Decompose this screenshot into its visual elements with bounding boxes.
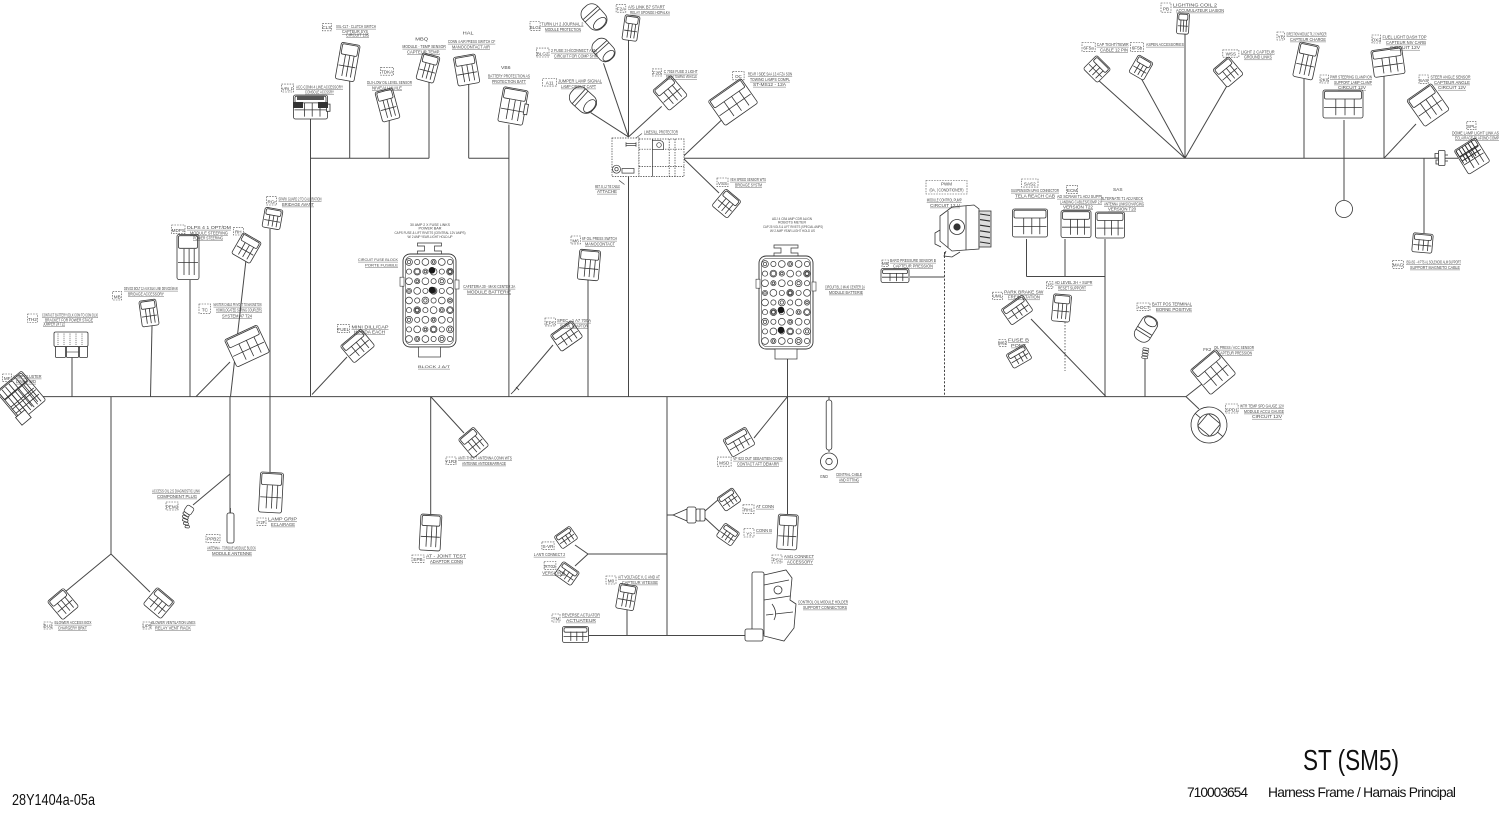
svg-text:CONN 4 AIR PRESS SWITCH CF: CONN 4 AIR PRESS SWITCH CF (448, 39, 496, 44)
svg-text:SUPPL ADAPTOR: SUPPL ADAPTOR (560, 323, 588, 328)
svg-text:CIRCUIT 105: CIRCUIT 105 (346, 33, 369, 38)
svg-text:ASPEN ACCESSORIES: ASPEN ACCESSORIES (1146, 42, 1184, 47)
svg-text:TELA REACH CAB: TELA REACH CAB (1015, 193, 1055, 198)
svg-text:JUMPER LAMP SIGNAL: JUMPER LAMP SIGNAL (558, 79, 602, 84)
svg-text:TH2: TH2 (28, 317, 37, 322)
svg-text:PEM2: PEM2 (166, 504, 179, 509)
svg-text:REVERSE ACTUATOR: REVERSE ACTUATOR (562, 613, 601, 618)
svg-text:MODULE BATTERIE: MODULE BATTERIE (467, 289, 511, 294)
svg-text:EPB: EPB (413, 557, 422, 562)
svg-text:MAG: MAG (1393, 263, 1404, 268)
svg-text:FK2: FK2 (1203, 347, 1211, 352)
svg-text:JUMPER 24 T22: JUMPER 24 T22 (43, 322, 65, 327)
svg-text:CIRCUIT 12V: CIRCUIT 12V (1252, 414, 1282, 419)
svg-text:PORTE FUSIBLE: PORTE FUSIBLE (365, 262, 398, 267)
svg-text:ACCESS OIL 2.5 DIAGNOSTIC LINK: ACCESS OIL 2.5 DIAGNOSTIC LINK (152, 489, 200, 494)
svg-text:CAPTEUR TEMP.: CAPTEUR TEMP. (407, 49, 440, 54)
svg-text:L ANTI CONNECT 2: L ANTI CONNECT 2 (534, 552, 566, 557)
svg-text:HONDA EACH: HONDA EACH (354, 330, 385, 335)
svg-text:RH: RH (235, 229, 242, 234)
svg-text:M6: M6 (572, 238, 579, 243)
svg-text:MODULE PROTECTION: MODULE PROTECTION (545, 27, 581, 32)
svg-text:WSS: WSS (1226, 52, 1236, 57)
svg-text:710003654: 710003654 (1187, 785, 1248, 800)
svg-text:ECM: ECM (1067, 188, 1077, 193)
svg-text:ISSASS - 4 PTS AL SOLENOID ALM: ISSASS - 4 PTS AL SOLENOID ALM SUPPORT (1406, 260, 1461, 265)
svg-text:CAPTEUR VITESSE: CAPTEUR VITESSE (622, 580, 658, 585)
svg-text:PONT: PONT (1011, 343, 1026, 348)
svg-text:RH1: RH1 (744, 508, 754, 513)
svg-text:PPB2: PPB2 (207, 537, 219, 542)
svg-text:TC: TC (202, 308, 209, 313)
svg-text:CAPTEUR ANGLE: CAPTEUR ANGLE (1434, 80, 1470, 85)
svg-text:A/T VOLTAGE V, C AND AT: A/T VOLTAGE V, C AND AT (618, 575, 660, 580)
svg-text:POWER STEERING: POWER STEERING (193, 236, 223, 241)
svg-text:SUPPORT CONNECTORS: SUPPORT CONNECTORS (803, 605, 847, 610)
svg-text:SAS2: SAS2 (1024, 182, 1036, 187)
svg-text:FUSE B: FUSE B (1008, 338, 1029, 343)
svg-text:OIL PRESS / ACC SENSOR: OIL PRESS / ACC SENSOR (1214, 345, 1254, 350)
svg-text:BARO PRESSURE SENSOR B: BARO PRESSURE SENSOR B (890, 258, 936, 263)
svg-text:A11: A11 (546, 81, 554, 86)
svg-text:BRIDAGE SYSTM: BRIDAGE SYSTM (735, 182, 762, 187)
svg-text:FREIN STATION: FREIN STATION (1008, 295, 1040, 300)
svg-text:RELAY SPONGE HOPALKA: RELAY SPONGE HOPALKA (630, 10, 671, 15)
svg-text:DLPS 4 1 OPT/DM: DLPS 4 1 OPT/DM (187, 225, 231, 230)
svg-text:MODULE ANTENNE: MODULE ANTENNE (212, 551, 252, 556)
svg-text:MDPS: MDPS (172, 228, 185, 233)
svg-text:A/S LINK B7 START: A/S LINK B7 START (628, 5, 665, 10)
svg-text:RELAY VENT RACK: RELAY VENT RACK (155, 625, 192, 630)
svg-text:VEH SPEED SENSOR WTS: VEH SPEED SENSOR WTS (730, 177, 766, 182)
svg-text:M62: M62 (998, 341, 1007, 346)
svg-text:CIRCUIT 12V: CIRCUIT 12V (1338, 85, 1366, 90)
svg-text:MODULE STEERING: MODULE STEERING (190, 230, 228, 235)
svg-text:CAPTEUR CHARGE: CAPTEUR CHARGE (1290, 37, 1326, 42)
svg-text:MANOCONTACT AIR: MANOCONTACT AIR (452, 44, 490, 49)
svg-text:CIRCUIT 12 V: CIRCUIT 12 V (930, 203, 960, 208)
svg-text:CAP TIGHT/TIEWR: CAP TIGHT/TIEWR (1097, 42, 1130, 47)
svg-text:SUPPORT LAMP CLAMP: SUPPORT LAMP CLAMP (1334, 80, 1372, 85)
svg-text:Amt1 CONNECT: Amt1 CONNECT (784, 554, 814, 559)
svg-text:Y2F: Y2F (258, 520, 266, 525)
svg-text:BORNE POSITIVE: BORNE POSITIVE (1156, 307, 1192, 312)
svg-text:2 FUSE 3 H/CONNECT ASM: 2 FUSE 3 H/CONNECT ASM (551, 48, 597, 53)
svg-text:OX2: OX2 (1372, 37, 1382, 42)
svg-text:JS: JS (1047, 283, 1052, 288)
svg-text:Harness Frame / Harnais Princi: Harness Frame / Harnais Principal (1268, 785, 1456, 800)
svg-text:M0: M0 (608, 578, 615, 583)
svg-text:W/ 2 AMP YEAR-LIGHT HOLD US: W/ 2 AMP YEAR-LIGHT HOLD US (770, 229, 815, 233)
svg-text:MINI DILL/CAP: MINI DILL/CAP (352, 324, 389, 329)
svg-text:CLS: CLS (322, 25, 331, 30)
svg-text:PWR STEERING CLAMP ION: PWR STEERING CLAMP ION (1330, 75, 1372, 80)
svg-text:BATT POS TERMINAL: BATT POS TERMINAL (1152, 302, 1192, 307)
svg-text:CAPTEUR PRESSION: CAPTEUR PRESSION (1218, 350, 1252, 355)
svg-text:AND FITTING: AND FITTING (839, 477, 859, 482)
svg-text:LINES/ILL PROTECTOR: LINES/ILL PROTECTOR (644, 130, 678, 135)
svg-text:F2A: F2A (617, 7, 626, 12)
svg-text:MODULE CONTROL PUMP: MODULE CONTROL PUMP (927, 198, 962, 203)
svg-text:Y2: Y2 (746, 531, 752, 536)
svg-text:BLG2: BLG2 (537, 51, 549, 56)
svg-text:BATTERY PROTECTION AS: BATTERY PROTECTION AS (488, 74, 530, 79)
svg-text:TM: TM (553, 616, 560, 621)
svg-text:CIRCUIT BL 2 MAXI CENTER 2A: CIRCUIT BL 2 MAXI CENTER 2A (825, 285, 865, 290)
svg-text:DEVICE BOLT 12 AUX BLK LINK DE: DEVICE BOLT 12 AUX BLK LINK DEVICE/MAXI (124, 286, 178, 291)
svg-text:SPARK GUARD 2 TO CALIBRATION: SPARK GUARD 2 TO CALIBRATION (279, 197, 322, 202)
svg-text:AT CONN: AT CONN (756, 504, 774, 509)
svg-text:TURN LH 2 JOURNAL 2: TURN LH 2 JOURNAL 2 (541, 22, 583, 27)
svg-text:BLOWER VENTILATION LINES: BLOWER VENTILATION LINES (152, 620, 196, 625)
svg-text:UML: UML (993, 294, 1003, 299)
svg-text:CHARGERY BRKT: CHARGERY BRKT (58, 625, 87, 630)
svg-text:RT02: RT02 (544, 564, 556, 569)
svg-text:SAS: SAS (1419, 78, 1428, 83)
svg-text:BLGr: BLGr (530, 25, 541, 30)
svg-text:GND: GND (820, 474, 828, 479)
svg-text:VERSION T22: VERSION T22 (1063, 205, 1094, 210)
svg-text:MSD: MSD (719, 461, 730, 466)
svg-text:CONTACT AFT DEMARR: CONTACT AFT DEMARR (737, 462, 780, 467)
svg-text:RGr: RGr (267, 199, 276, 204)
svg-text:MBQ: MBQ (415, 37, 428, 42)
svg-text:GROUND LINKS: GROUND LINKS (1244, 55, 1272, 60)
svg-text:LAMP GRIP: LAMP GRIP (268, 517, 297, 522)
svg-text:NIVEAU HUILE: NIVEAU HUILE (372, 86, 402, 91)
svg-text:MB: MB (114, 294, 121, 299)
svg-text:CAFETERIA 30 - MAXI CENTER 2A: CAFETERIA 30 - MAXI CENTER 2A (463, 284, 515, 289)
svg-text:ATTACHE: ATTACHE (597, 189, 617, 194)
svg-text:MODULE - TEMP SENSOR: MODULE - TEMP SENSOR (402, 44, 446, 49)
svg-text:6F OIL PRESS SWITCH: 6F OIL PRESS SWITCH (582, 236, 617, 241)
svg-text:STEER ANGLE SENSOR: STEER ANGLE SENSOR (1431, 75, 1472, 80)
svg-text:CIRCUIT 12V: CIRCUIT 12V (1438, 85, 1466, 90)
svg-text:LINK FWD: LINK FWD (16, 379, 37, 384)
svg-text:CIRCUIT 12V: CIRCUIT 12V (1390, 45, 1420, 50)
svg-text:CONTROL OIL MODULE HOLDER: CONTROL OIL MODULE HOLDER (798, 600, 848, 605)
svg-text:VB6: VB6 (501, 65, 511, 70)
svg-text:BLOCK J A/T: BLOCK J A/T (418, 365, 451, 369)
svg-text:2K0: 2K0 (1320, 77, 1329, 82)
svg-text:VSS: VSS (718, 181, 727, 186)
svg-text:ACTUATEUR: ACTUATEUR (566, 618, 597, 623)
svg-text:ECLAIRAGE PLAFOND COMP: ECLAIRAGE PLAFOND COMP (1455, 136, 1499, 141)
svg-text:REAR / SIDE SAA 13.4 FZA SON: REAR / SIDE SAA 13.4 FZA SON (748, 72, 792, 77)
svg-text:SPL: SPL (1467, 124, 1476, 129)
svg-text:ADAPTOR CONN: ADAPTOR CONN (430, 559, 463, 564)
svg-text:RESET SUPPORT: RESET SUPPORT (1058, 285, 1086, 290)
svg-text:MANOCONTACT: MANOCONTACT (585, 241, 615, 246)
svg-text:CABLE 12 PIN: CABLE 12 PIN (1100, 47, 1128, 52)
svg-text:MODULE ACCU GAUGE: MODULE ACCU GAUGE (1244, 409, 1284, 414)
svg-text:SUSPENSION UPAS CONNECTOR: SUSPENSION UPAS CONNECTOR (1011, 188, 1059, 193)
svg-text:CAPTEUR NIV CARB: CAPTEUR NIV CARB (1386, 40, 1426, 45)
svg-text:CONN B: CONN B (756, 528, 772, 533)
svg-text:FROM TOWING VEHICLE: FROM TOWING VEHICLE (666, 74, 697, 79)
svg-text:VRLF: VRLF (282, 86, 294, 91)
svg-text:M6: M6 (882, 261, 889, 266)
svg-text:Y1R2: Y1R2 (445, 459, 457, 464)
svg-text:CIRCUIT FUSE BLOCK: CIRCUIT FUSE BLOCK (358, 257, 398, 262)
svg-text:BU2: BU2 (44, 623, 53, 628)
svg-text:TDKA: TDKA (381, 70, 394, 75)
svg-text:BRIDAGE AVANT: BRIDAGE AVANT (282, 202, 314, 207)
svg-text:SPEC - 1 A7 700A: SPEC - 1 A7 700A (557, 318, 592, 323)
svg-text:CONSOLE ACCSSRY: CONSOLE ACCSSRY (305, 90, 334, 95)
svg-text:SAS: SAS (1113, 187, 1123, 192)
svg-text:OC: OC (735, 74, 743, 79)
svg-text:HAL: HAL (463, 31, 474, 36)
svg-text:UP5: UP5 (143, 623, 152, 628)
svg-text:VERSION T20: VERSION T20 (1108, 207, 1137, 212)
svg-text:PB: PB (1163, 7, 1169, 12)
svg-text:W/ 2 AMP YEAR-LIGHT HOLD-UP: W/ 2 AMP YEAR-LIGHT HOLD-UP (408, 235, 453, 239)
svg-text:ANTENNE ANTIDEMARRAGE: ANTENNE ANTIDEMARRAGE (462, 461, 506, 466)
svg-text:PS1: PS1 (773, 557, 782, 562)
svg-text:F2B: F2B (653, 70, 661, 75)
svg-text:ACCUMULATEUR LIAISON: ACCUMULATEUR LIAISON (1176, 8, 1224, 13)
svg-text:COMPONENT PLUG: COMPONENT PLUG (157, 494, 198, 499)
svg-text:ST (SM5): ST (SM5) (1303, 745, 1399, 777)
svg-text:AT - JOINT TEST: AT - JOINT TEST (426, 554, 466, 559)
svg-text:DLX-LOW OIL LEVEL SENSOR: DLX-LOW OIL LEVEL SENSOR (367, 80, 412, 85)
svg-text:PWM: PWM (941, 182, 952, 187)
svg-text:EPS: EPS (546, 320, 555, 325)
svg-text:LANDING CABLES/COMP 2.0: LANDING CABLES/COMP 2.0 (1060, 199, 1102, 204)
svg-text:BLOWER ACCESS BOX: BLOWER ACCESS BOX (55, 620, 92, 625)
svg-text:ST-MS12 - 12A: ST-MS12 - 12A (753, 82, 786, 87)
svg-text:FUEL LIGHT DASH TOP: FUEL LIGHT DASH TOP (1383, 35, 1427, 40)
svg-text:YB: YB (1278, 34, 1284, 39)
svg-text:ANTI-THEFT ANTENNA CONN WTS: ANTI-THEFT ANTENNA CONN WTS (458, 456, 512, 461)
svg-text:CAPTEUR PRESSION: CAPTEUR PRESSION (893, 263, 933, 268)
svg-text:28Y1404a-05a: 28Y1404a-05a (12, 792, 95, 809)
svg-text:VF 623 OUT SEBASTIEN CONN: VF 623 OUT SEBASTIEN CONN (733, 456, 782, 461)
svg-text:CIRCUIT FOR COMP SHIP: CIRCUIT FOR COMP SHIP (554, 53, 598, 58)
svg-text:MODULE BATTERIE: MODULE BATTERIE (829, 290, 863, 295)
svg-text:ANTENNA - TORQUE MODULE BLOCK: ANTENNA - TORQUE MODULE BLOCK (207, 546, 256, 551)
svg-text:ACCESSORY: ACCESSORY (787, 559, 813, 564)
svg-text:S-VR: S-VR (543, 544, 555, 549)
svg-text:BRIDAGE ACCESSORY: BRIDAGE ACCESSORY (128, 291, 164, 296)
svg-text:WTR TEMP SPD GAUGE 12V: WTR TEMP SPD GAUGE 12V (1240, 404, 1285, 409)
svg-text:+DCT: +DCT (1137, 305, 1149, 310)
svg-text:MF: MF (4, 376, 11, 381)
svg-text:SYSTEM 47 T24: SYSTEM 47 T24 (222, 313, 252, 318)
svg-text:FUEL: FUEL (337, 327, 349, 332)
svg-text:(0A, | CONDITIONER): (0A, | CONDITIONER) (930, 188, 964, 193)
svg-text:SUPPORT MAGNETO CABLE: SUPPORT MAGNETO CABLE (1410, 265, 1460, 270)
svg-text:VERSION B: VERSION B (542, 571, 565, 576)
svg-text:PROTECTION BATT: PROTECTION BATT (492, 79, 526, 84)
svg-text:6F5b: 6F5b (1132, 46, 1143, 51)
svg-text:ANTENNA LINKS/CHARGING: ANTENNA LINKS/CHARGING (1104, 201, 1144, 206)
svg-text:ALTERNATE T1 ADJ NECK: ALTERNATE T1 ADJ NECK (1101, 196, 1144, 201)
svg-text:LIGHTING COIL 2: LIGHTING COIL 2 (1173, 3, 1218, 8)
svg-text:DIRECTION MODULE T/L 2 CHARGER: DIRECTION MODULE T/L 2 CHARGER (1287, 32, 1327, 37)
svg-text:6F5a: 6F5a (1083, 46, 1094, 51)
svg-text:AD SCRAM T1 ADJ SUPPL: AD SCRAM T1 ADJ SUPPL (1057, 194, 1103, 199)
svg-text:MASTER CABLE PIVVOLT TO MAGNET: MASTER CABLE PIVVOLT TO MAGNETON (214, 302, 262, 307)
svg-text:HOMOLOGATED SPRING COUPLERS: HOMOLOGATED SPRING COUPLERS (216, 307, 262, 312)
svg-text:LAMP CIRCUIT CAPT: LAMP CIRCUIT CAPT (561, 84, 596, 89)
svg-text:CENTRAL CABLE: CENTRAL CABLE (836, 472, 862, 477)
svg-text:ECLAIRAGE: ECLAIRAGE (271, 522, 295, 527)
svg-text:SPD1: SPD1 (1226, 407, 1238, 412)
svg-text:AD LEVEL 2H + SUPR: AD LEVEL 2H + SUPR (1055, 280, 1093, 285)
